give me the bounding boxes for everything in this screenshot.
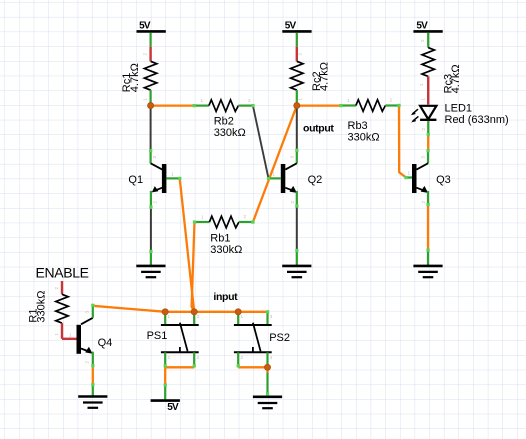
svg-text:4.7kΩ: 4.7kΩ	[319, 62, 331, 91]
node input bus dot A	[162, 309, 168, 315]
ground (under PS2)	[253, 373, 282, 409]
svg-text:4.7kΩ: 4.7kΩ	[129, 63, 141, 92]
svg-text:Q1: Q1	[128, 174, 143, 186]
wire PS1 to 5V	[164, 367, 166, 385]
resistor Rb1 330k	[195, 214, 253, 256]
pin endpoint connection squares	[91, 104, 430, 396]
svg-text:5V: 5V	[285, 21, 297, 32]
svg-text:Rb3: Rb3	[348, 120, 368, 132]
power symbol 5V (top-middle supply)	[282, 21, 311, 47]
wire Q1 base to input node	[180, 178, 195, 311]
wire dot1 down to Q1 collector	[150, 106, 152, 151]
svg-text:330kΩ: 330kΩ	[348, 131, 380, 143]
power symbol 5V (top-right supply)	[413, 21, 442, 48]
wire	[150, 33, 152, 47]
wire Rb1 left to input node	[192, 222, 195, 312]
svg-text:330kΩ: 330kΩ	[214, 127, 246, 139]
svg-text:output: output	[303, 123, 334, 135]
svg-text:LED1: LED1	[445, 103, 473, 115]
svg-text:Q3: Q3	[436, 174, 451, 186]
wire Rb2 right to Q2 base	[253, 106, 269, 179]
resistor Rb3 330k	[341, 98, 399, 144]
wire dot2 to Rb1 right (cross-coupling)	[253, 106, 297, 222]
node junction dot 1 (left collector rail)	[148, 103, 154, 109]
wire LED cathode to Q3 collector	[427, 135, 429, 151]
svg-text:input: input	[213, 291, 238, 303]
wire input bus segment 3	[238, 311, 267, 313]
ground (under Q4)	[78, 384, 107, 408]
svg-text:5V: 5V	[167, 402, 179, 413]
wire dot2 to Rb3	[297, 104, 341, 106]
node PS2 bottom dot	[264, 364, 270, 370]
resistor Rc2 4.7k	[291, 47, 331, 106]
svg-text:PS2: PS2	[269, 332, 290, 344]
wire input bus segment 2	[194, 311, 238, 313]
ground (under Q3)	[413, 250, 442, 277]
ground (under Q1)	[136, 251, 165, 277]
wire PS1 bottom pins	[165, 366, 194, 368]
wire PS2 to ground	[266, 367, 268, 372]
transistor Q2	[269, 150, 323, 207]
resistor Rc3 4.7k	[419, 39, 462, 105]
resistor Rc1 4.7k	[121, 47, 157, 106]
wire Q1 emitter to ground	[150, 209, 152, 251]
wire dot2 down to Q2 collector	[296, 106, 298, 151]
svg-text:330kΩ: 330kΩ	[36, 291, 48, 323]
svg-text:5V: 5V	[139, 21, 151, 32]
svg-text:PS1: PS1	[147, 330, 168, 342]
wire Q3 emitter to ground	[427, 206, 429, 250]
wire Q4 emitter to ground	[92, 367, 94, 384]
svg-text:Rb2: Rb2	[214, 115, 234, 127]
wire Rb3 right down to Q3 base	[399, 105, 406, 177]
power symbol 5V (bottom, flipped)	[151, 385, 180, 413]
node junction dot 2 (right collector rail / output)	[294, 103, 300, 109]
wire input bus segment 1	[165, 311, 194, 313]
svg-text:5V: 5V	[416, 21, 428, 32]
LED LED1 Red (633nm)	[411, 98, 509, 135]
transistor Q1	[128, 151, 179, 209]
svg-text:Rb1: Rb1	[210, 233, 230, 245]
svg-text:Red (633nm): Red (633nm)	[445, 114, 509, 126]
resistor R1 330k	[27, 281, 68, 339]
wire Q2 emitter to ground	[296, 208, 298, 251]
wire	[296, 33, 298, 47]
svg-text:330kΩ: 330kΩ	[210, 244, 242, 256]
power symbol 5V (top-left supply)	[137, 21, 166, 47]
pushbutton PS2	[234, 312, 290, 368]
svg-text:4.7kΩ: 4.7kΩ	[450, 64, 462, 93]
svg-text:Q4: Q4	[98, 337, 113, 349]
node input bus dot B	[191, 309, 197, 315]
wire PS2 bottom pins	[238, 366, 267, 368]
wire dot1 to Rb2	[151, 104, 195, 106]
transistor Q4	[62, 305, 112, 367]
resistor Rb2 330k	[194, 98, 253, 139]
node input bus dot C	[235, 309, 241, 315]
wire Q4 collector to input bus	[93, 306, 165, 312]
wire	[427, 33, 429, 48]
pushbutton PS1	[147, 312, 200, 368]
transistor Q3	[406, 151, 451, 206]
svg-text:ENABLE: ENABLE	[36, 264, 89, 280]
svg-text:Q2: Q2	[308, 174, 323, 186]
ground (under Q2)	[282, 250, 311, 277]
